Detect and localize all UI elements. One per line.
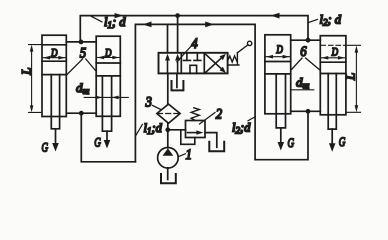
node right top junction [306,38,311,43]
svg-text:L: L [19,68,34,76]
svg-text:l1; d: l1; d [104,15,126,30]
svg-text:1: 1 [186,147,192,163]
valve right position crossed arrows [206,54,226,73]
wire valve P down to filter [167,73,169,104]
wire upper line B (cap-end manifold) [80,16,308,42]
svg-text:G: G [339,134,346,149]
value label D (cylinder 5a bore) [43,48,65,60]
wire valve port A up to second line [167,24,169,52]
valve left position parallel arrows [165,54,180,74]
relief valve spring [191,108,199,121]
net label l2;d top [308,12,342,27]
net label l2;d right pipe [232,117,255,136]
label 6 with leaders [292,44,320,70]
cylinder 5b body [96,36,120,131]
relief valve 2 body [186,121,206,138]
svg-text:4: 4 [191,36,198,52]
svg-text:G: G [42,140,49,155]
cylinder 6b body [320,36,346,129]
flow arrow on second line pointing right [205,22,214,28]
load arrow G under cylinder 6b [329,129,346,152]
valve centre position blocked ports [184,53,201,74]
svg-text:D: D [276,44,284,56]
wire valve tank drain [176,73,178,87]
tank symbol at relief valve [209,142,224,152]
node pump outlet junction [165,127,170,132]
pump 1 [158,148,179,169]
directional control valve 4 body [159,53,228,74]
label 1 with leader [178,147,192,163]
svg-text:l1;d: l1;d [144,121,163,136]
value label d_sh with underline (right group) [291,75,314,91]
dimension L (left) [19,45,43,113]
valve spring [228,53,239,65]
wire left group bottom pipe [66,113,135,162]
svg-text:l2;d: l2;d [232,120,251,135]
dimension L (right) [321,45,361,112]
load arrow G under cylinder 5b [94,131,110,149]
wire valve port B up to upper line [177,16,179,53]
value label D (cylinder 6b bore) [321,47,345,60]
wire second line A (rod-end manifold) [135,24,255,161]
label 4 with leader [177,36,198,62]
net label l1;d left pipe [136,121,163,136]
cylinder 6a body [265,35,291,128]
node junction on upper line [175,13,180,18]
value label d_sh with dimension (left group) [76,80,128,99]
flow arrow on upper line pointing left [271,13,280,19]
svg-text:D: D [331,47,339,59]
cylinder 5a body [42,35,66,129]
svg-text:2: 2 [216,107,223,123]
load arrow G under cylinder 6a [278,128,295,151]
svg-text:G: G [288,135,295,150]
wire right group bottom pipe [255,111,320,159]
wire relief valve outlet [205,133,217,148]
load arrow G under cylinder 5a [42,129,59,155]
node left bottom junction [79,111,84,116]
node left top junction [79,40,84,45]
value label D (cylinder 6a bore) [266,44,290,59]
value label D (cylinder 5b bore) [97,47,119,59]
wire left group top pipe [66,41,96,43]
label 3 with leader [145,95,161,111]
wire right group top pipe [291,39,321,41]
svg-text:G: G [94,135,101,150]
svg-text:L: L [343,73,358,81]
valve lever with knob [237,41,251,53]
tank symbol at pump [161,174,176,183]
wire filter down to pump [167,123,169,148]
wire pump suction [167,168,169,180]
filter 3 [157,104,180,123]
label 5 with leaders [67,46,96,75]
svg-text:l2; d: l2; d [320,12,342,27]
label 2 with leader [200,107,223,125]
tank symbol under valve [172,81,184,90]
flow arrow on upper line pointing right [115,13,124,18]
svg-text:3: 3 [145,95,152,111]
wire branch to relief valve [168,129,186,131]
node right bottom junction [306,109,311,114]
relief valve pilot line [181,130,195,145]
flow arrow on second line pointing left [143,22,152,28]
net label l1;d top [91,15,126,30]
